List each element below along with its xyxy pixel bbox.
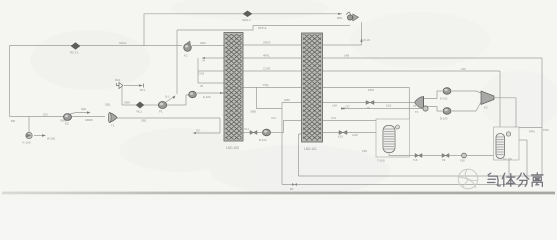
- wire K-100 work arrow: [34, 135, 42, 137]
- svg-text:SRU1: SRU1: [119, 41, 127, 45]
- stream labels: [11, 26, 549, 153]
- svg-text:SRV3: SRV3: [263, 41, 271, 45]
- valve VL1: [244, 127, 257, 135]
- svg-text:BR: BR: [11, 119, 15, 123]
- wire cross line y58: [205, 57, 542, 59]
- svg-text:CES-1: CES-1: [242, 18, 251, 22]
- pump E2: [64, 107, 91, 126]
- wire Q-L arrow P1: [166, 98, 172, 102]
- wire GBB route: [257, 87, 302, 108]
- wire GB1 y118: [117, 117, 220, 119]
- svg-text:QE1: QE1: [81, 107, 87, 111]
- arrow L3T: [341, 107, 345, 109]
- pump P1: [158, 95, 175, 114]
- svg-text:LND-101: LND-101: [304, 147, 317, 151]
- wire B-100 riser to VL2: [284, 121, 302, 133]
- valve K9: [442, 154, 449, 163]
- wire B-101 to K3: [452, 102, 481, 111]
- pump B-101: [440, 108, 451, 121]
- valve KID: [338, 131, 347, 139]
- svg-text:P1: P1: [159, 110, 163, 114]
- svg-text:K1D: K1D: [338, 135, 343, 139]
- vessel T-100 coil: [377, 125, 400, 163]
- compressor K-100: [23, 132, 56, 144]
- wire cross line y45: [243, 44, 362, 46]
- wire top line y13.8: [144, 13, 342, 15]
- svg-text:GRU: GRU: [200, 41, 206, 45]
- expander T1: [108, 113, 117, 128]
- svg-text:T1: T1: [111, 124, 115, 128]
- diamond RCY-1: [70, 43, 80, 55]
- column LND-100: [224, 33, 243, 151]
- compressor MC1: [337, 12, 370, 42]
- svg-text:GB1: GB1: [141, 119, 147, 123]
- watermark logo: [458, 169, 478, 189]
- valve K5: [366, 101, 374, 111]
- wire drop x298.5: [299, 134, 302, 176]
- svg-text:RA1: RA1: [115, 78, 121, 82]
- svg-text:GBL: GBL: [105, 103, 111, 107]
- pump E-100: [189, 91, 224, 99]
- svg-text:GBR: GBR: [60, 119, 66, 123]
- svg-text:CIV2: CIV2: [198, 72, 205, 76]
- wire E-102 to K3: [452, 91, 481, 93]
- wire vessel1 outlet y155.5: [388, 152, 390, 156]
- pump B-100: [259, 129, 271, 142]
- svg-text:Q-L: Q-L: [165, 95, 170, 99]
- arrow J4: [202, 57, 206, 59]
- wire bottom line y184.5: [282, 184, 527, 186]
- svg-text:C3VE: C3VE: [263, 67, 270, 71]
- svg-text:RT1: RT1: [140, 88, 146, 92]
- svg-text:B2: B2: [290, 187, 294, 191]
- wire riser x144: [143, 14, 145, 46]
- wire T3 bottom outlet: [424, 107, 443, 112]
- wire drop x409.3: [408, 87, 410, 119]
- wire cross line y87.4: [243, 86, 409, 88]
- wire box2 top link: [519, 127, 542, 129]
- svg-text:GBB: GBB: [250, 110, 256, 114]
- char qi: [488, 173, 501, 186]
- svg-text:100: 100: [43, 113, 48, 117]
- wire P1 line y105: [122, 104, 136, 106]
- wire box2 bottom drop x509: [508, 160, 510, 176]
- expander T3: [415, 97, 424, 115]
- wire riser x198: [197, 58, 199, 83]
- vessel T-100 box: [376, 119, 409, 157]
- valve P18: [460, 153, 466, 162]
- svg-text:PRA: PRA: [529, 130, 535, 134]
- vessel AC-100 coil: [496, 132, 512, 161]
- wire drop x527: [526, 140, 528, 185]
- svg-text:T-100: T-100: [377, 159, 385, 163]
- svg-text:J4: J4: [202, 59, 205, 63]
- svg-text:VL2: VL2: [271, 116, 276, 120]
- wire MC downcomer x361.5: [361, 22, 363, 45]
- svg-text:L2W: L2W: [352, 133, 358, 137]
- svg-text:B-100: B-100: [440, 117, 448, 121]
- svg-text:RL1: RL1: [137, 110, 143, 114]
- wire L3T line y108.5: [344, 108, 422, 110]
- wire column line y132.5 right: [323, 132, 340, 134]
- bottom scan rule: [0, 0, 1, 1]
- wire box2 top feed x500: [499, 71, 501, 127]
- svg-text:DPP-E: DPP-E: [258, 26, 267, 30]
- wire valve line y102.5: [323, 102, 367, 104]
- svg-text:E-100: E-100: [203, 95, 211, 99]
- wire T3 top outlet: [424, 91, 443, 99]
- diamond RL1: [136, 102, 144, 114]
- char li: [532, 173, 543, 187]
- svg-text:VL1: VL1: [244, 127, 249, 131]
- svg-text:L4B: L4B: [344, 54, 349, 58]
- svg-text:E-102: E-102: [440, 97, 448, 101]
- svg-text:GBS: GBS: [284, 98, 290, 102]
- svg-text:P18: P18: [460, 159, 465, 163]
- wire box2 right y140: [519, 139, 527, 141]
- wire branch to K-100: [28, 117, 30, 133]
- arrow O2 out: [193, 129, 201, 135]
- svg-text:LND-100: LND-100: [226, 146, 239, 150]
- svg-text:L4H: L4H: [332, 104, 337, 108]
- svg-text:T3: T3: [415, 110, 419, 114]
- wire drop x516: [515, 98, 517, 127]
- svg-text:GBR8: GBR8: [85, 118, 93, 122]
- wire bottom line y176: [299, 175, 543, 177]
- vessel AC-100 box: [494, 127, 520, 160]
- svg-text:B-100: B-100: [259, 138, 267, 142]
- svg-text:Y5: Y5: [367, 106, 371, 110]
- svg-text:L99: L99: [461, 67, 466, 71]
- column LND-101: [302, 33, 323, 151]
- pump E-102: [440, 88, 451, 101]
- svg-text:TL8: TL8: [413, 158, 418, 162]
- wire E-100 to column y93: [197, 92, 224, 94]
- wire QE1 arrow: [70, 113, 87, 115]
- diamond CES-1: [242, 11, 252, 22]
- svg-text:K-100: K-100: [23, 141, 31, 145]
- svg-text:4RVL: 4RVL: [263, 54, 270, 58]
- wire right vertical x542: [541, 58, 543, 176]
- svg-text:PRS: PRS: [543, 128, 549, 132]
- svg-text:PRO: PRO: [368, 88, 375, 92]
- valve Y18: [413, 154, 422, 163]
- wire RA1 vent y85.5: [124, 85, 141, 87]
- wire long drop x282: [281, 109, 283, 185]
- svg-text:GBN: GBN: [124, 101, 130, 105]
- char ti: [502, 173, 515, 186]
- wire cross line y71: [198, 70, 500, 72]
- svg-text:AC-100: AC-100: [503, 157, 512, 161]
- wire DPP-E box: [177, 26, 350, 95]
- compressor K2: [184, 41, 192, 58]
- svg-text:K9: K9: [442, 158, 446, 162]
- svg-text:K2: K2: [184, 54, 188, 58]
- svg-text:MR1: MR1: [337, 16, 343, 20]
- wire K2 outlet to column: [192, 45, 224, 47]
- compressor K3: [481, 91, 494, 110]
- wire feed horizontal y116.5: [10, 116, 106, 118]
- svg-text:P20: P20: [362, 149, 367, 153]
- svg-text:RCY-1: RCY-1: [70, 51, 79, 55]
- svg-text:W-19: W-19: [363, 38, 370, 42]
- svg-text:L3T: L3T: [345, 105, 350, 109]
- wire top recycle y46: [10, 45, 183, 47]
- pump T9: [341, 104, 428, 111]
- svg-text:P3Q: P3Q: [263, 83, 269, 87]
- valve B2: [290, 183, 297, 191]
- svg-text:VL3: VL3: [331, 116, 336, 120]
- wire VL3 y120.5: [323, 120, 377, 122]
- wire stub y83: [198, 82, 224, 84]
- char fen: [517, 173, 529, 186]
- svg-text:K3: K3: [484, 106, 488, 110]
- wire K3 outlet: [494, 97, 516, 99]
- wire O2 product: [196, 118, 220, 133]
- wire VL1 bottoms y132.5: [243, 132, 250, 134]
- wire RA1 drop: [121, 87, 123, 105]
- svg-text:O2: O2: [196, 129, 200, 133]
- wire left vertical: [9, 46, 11, 117]
- svg-text:W-100: W-100: [47, 137, 56, 141]
- svg-text:L5Q: L5Q: [386, 104, 392, 108]
- wire P1 to E-100 diagonal: [186, 95, 189, 105]
- watermark text 气体分离: [488, 173, 543, 187]
- relief RA1: [115, 78, 146, 92]
- svg-text:J8: J8: [200, 84, 203, 88]
